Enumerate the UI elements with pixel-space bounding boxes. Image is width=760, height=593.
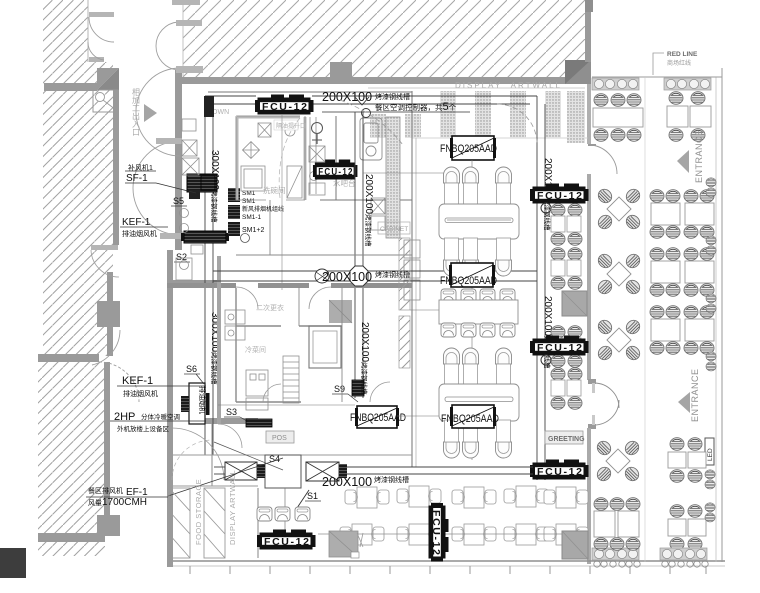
label S1 [297, 490, 321, 508]
kitchen door arc a [236, 287, 258, 309]
svg-text:排油烟风机: 排油烟风机 [123, 389, 158, 398]
duct valve circle node [315, 269, 329, 283]
svg-text:FNBQ205AAD: FNBQ205AAD [350, 412, 406, 424]
supply fan SF-1 unit [187, 174, 217, 199]
fan coil FCU-12 bottom left [257, 530, 316, 550]
fan coil FCU-12 right riser bottom [530, 460, 589, 480]
diamond table 2 [596, 252, 643, 297]
svg-text:200X100: 200X100 [322, 270, 372, 284]
S3 striped bar [246, 419, 272, 427]
right wall mid segment [587, 174, 591, 380]
svg-text:DISPLAY ARTWALL: DISPLAY ARTWALL [455, 81, 562, 90]
connection line FNBQ row horizontals [363, 172, 452, 174]
right wall lower segment [587, 428, 591, 564]
right building wall upper [585, 0, 591, 62]
dining cluster C3 table [439, 384, 519, 421]
exhaust duct black segment top [204, 96, 214, 117]
kitchen lower-left wall bar [200, 418, 258, 424]
food storage racks [169, 488, 258, 558]
svg-text:冷菜间: 冷菜间 [245, 345, 266, 354]
svg-text:SM1+2: SM1+2 [242, 227, 264, 234]
bottom bench band left [592, 548, 639, 560]
door arc right upper [591, 145, 617, 174]
kitchen mid horizontal wall [172, 280, 218, 287]
kitchen wall x270 upper [269, 200, 271, 255]
bottom grid tick marks [190, 566, 706, 574]
door swing upper-left wall b [88, 42, 104, 62]
banquette rail line bottom [318, 533, 588, 535]
booth column unit 2 [551, 248, 582, 290]
ENTRANCE arrow lower [678, 392, 690, 413]
corridor top edge [592, 76, 722, 78]
corridor table set 2 [650, 190, 714, 239]
central riser duct [355, 112, 363, 398]
kitchen door arc d [370, 382, 390, 402]
label 2HP [110, 411, 206, 433]
big duct label 200X100 top [322, 90, 470, 118]
water bar counter equipment [371, 117, 420, 300]
lower kitchen appliance row [246, 370, 268, 410]
big duct label 200X100 mid [322, 270, 410, 284]
top wall bar [175, 77, 591, 84]
corridor arrow [144, 104, 157, 122]
bottom-left dark block [0, 548, 26, 578]
dining cluster C1 benches bottom [444, 238, 512, 276]
svg-text:GREETING: GREETING [548, 436, 585, 443]
svg-text:KEF-1: KEF-1 [122, 375, 153, 387]
damper S2 label [174, 252, 190, 262]
fan coil FCU-7 water bar [313, 160, 357, 180]
svg-text:口: 口 [132, 128, 140, 137]
horizontal main duct 200X100 mid [213, 271, 537, 281]
svg-text:烤漆钢线槽: 烤漆钢线槽 [374, 475, 409, 484]
svg-text:S5: S5 [173, 196, 184, 206]
big refrigerator box [309, 326, 341, 368]
svg-text:RED LINE: RED LINE [667, 51, 698, 58]
svg-text:DISPLAY ARTWALL: DISPLAY ARTWALL [228, 470, 237, 545]
top bench band left [592, 78, 639, 90]
right riser duct pair [537, 96, 545, 480]
kitchen top inner wall [208, 91, 412, 93]
door swing arc top-left outer [133, 22, 180, 235]
artwall hatched stripes [368, 88, 585, 143]
svg-text:餐区排风机: 餐区排风机 [88, 486, 123, 495]
door jamb block mid left [97, 301, 120, 327]
svg-text:SM1-1: SM1-1 [242, 214, 262, 221]
fan coil FNBQ205AAD unit 1 [440, 136, 497, 160]
connection line FNBQ1 down through tables [471, 160, 473, 263]
svg-text:烤漆钢线槽: 烤漆钢线槽 [375, 92, 410, 101]
bottom duct 200X100 [214, 467, 533, 474]
cold room wall x342 [341, 287, 343, 402]
leader line from 200X100 top to S4 [214, 442, 283, 470]
left building wall upper [175, 70, 182, 250]
corridor label 相加工出入口 [132, 87, 140, 137]
service station gray square bottom [562, 531, 588, 559]
hood dashed arc upper kitchen 2 [279, 118, 300, 198]
bottom-left door arc small [218, 424, 242, 448]
svg-text:二次更衣: 二次更衣 [256, 303, 284, 312]
LED box [705, 438, 714, 465]
water bar tall cabinet [360, 118, 382, 160]
bottom-right booth cluster left [594, 498, 640, 551]
svg-text:外机放楼上设备区: 外机放楼上设备区 [117, 424, 170, 433]
diamond table 1 [596, 187, 643, 232]
storage zone top wall [172, 485, 258, 487]
left exterior hatched wall band upper [43, 0, 119, 356]
hood dashed arc upper kitchen [340, 100, 403, 145]
svg-text:餐区空调控制器，共5个: 餐区空调控制器，共5个 [375, 101, 457, 113]
svg-text:ENTRANCE: ENTRANCE [690, 368, 700, 422]
corridor table set 4 [650, 306, 714, 355]
fan coil vertical unit bottom center [429, 503, 449, 562]
door arc left-mid corridor [92, 330, 139, 402]
booth column unit 1 [551, 204, 582, 246]
svg-text:FOOD STORAGE: FOOD STORAGE [194, 479, 203, 545]
svg-text:CABINET: CABINET [380, 226, 408, 233]
dining cluster C1 benches top [444, 167, 512, 205]
top bench band right [664, 78, 711, 90]
bottom-left door arc big [172, 428, 224, 480]
svg-text:FNBQ205AAD: FNBQ205AAD [440, 143, 497, 155]
corridor table set 5 [668, 438, 706, 483]
door leaf blocks top-left [156, 0, 203, 239]
fan coil FNBQ205AAD unit 2 [440, 263, 497, 287]
svg-text:SF-1: SF-1 [126, 173, 148, 184]
cold room / changing room walls [236, 288, 342, 402]
dining cluster C3 benches top [444, 348, 512, 386]
label KEF-1 upper [120, 217, 168, 238]
table set top-left long [593, 94, 643, 142]
kitchen mid wall gray bar [167, 283, 412, 288]
kitchen exhaust KEF lower striped units [181, 383, 210, 424]
bottom boundary wall double line [168, 561, 725, 566]
kitchen room wall y255 [236, 254, 412, 256]
kitchen door arc b [309, 287, 331, 309]
top wall column block [330, 62, 352, 84]
FCU-12 centerline down [281, 115, 283, 290]
booth column unit 4 [551, 368, 582, 410]
exhaust unit bar (by S2) [181, 231, 229, 243]
label S3 [224, 407, 252, 424]
SM fresh-air units stack [228, 188, 284, 243]
svg-text:S3: S3 [226, 407, 237, 417]
POS counter [266, 431, 294, 443]
bottom-left wall x212 [211, 424, 213, 486]
kitchen door arc c [263, 384, 281, 402]
wall-side mini seats column [705, 178, 716, 522]
svg-text:分体冷暖空调: 分体冷暖空调 [141, 412, 180, 421]
ladder shelf [283, 356, 299, 403]
changing room wall x299 [298, 287, 300, 326]
dining cluster C3 benches bottom [444, 420, 512, 458]
diamond table 4 [595, 439, 642, 484]
left kitchen equipment column [176, 119, 203, 280]
corridor table set 6 [668, 505, 706, 551]
entrance double door arcs [588, 379, 619, 429]
svg-text:LED: LED [707, 448, 714, 461]
bottom-left door dashed arc [172, 440, 212, 480]
dining cluster C1 table [439, 204, 519, 239]
svg-text:SM1: SM1 [242, 198, 256, 205]
wall bar crossing left band top [44, 83, 97, 91]
door jamb block lower left [97, 515, 120, 536]
wall bar crossing left band middle [38, 354, 99, 362]
GREETING sign [545, 431, 585, 444]
dining cluster C2 chairs top row [441, 289, 515, 303]
corridor left edge line [644, 77, 646, 562]
label S6 [184, 364, 204, 384]
dishwashing room walls [237, 117, 305, 200]
service station gray square upper [562, 291, 587, 316]
dining cluster C2 chairs bottom row [441, 323, 515, 337]
dishwasher equipment boxes [241, 123, 325, 198]
dining cluster C2 table [439, 300, 518, 324]
fan coil FNBQ205AAD unit 3 (bottom left) [350, 406, 406, 428]
svg-text:隔油提升口: 隔油提升口 [276, 122, 306, 130]
label EF-1 with leader [86, 458, 283, 508]
svg-text:FNBQ205AAD: FNBQ205AAD [440, 275, 497, 287]
right building wall below corner [587, 84, 591, 144]
kitchen corridor wall x219 [217, 256, 221, 424]
label 补风机1 SF-1 [125, 163, 196, 193]
RED LINE label [653, 51, 698, 75]
tiny stool circles row bottom-right [594, 561, 708, 567]
svg-text:S9: S9 [334, 384, 345, 394]
VAV S9 unit [352, 380, 364, 396]
damper S5 label [171, 196, 187, 206]
exhaust riser duct 300X100 [205, 96, 537, 455]
ENTRANCE arrow upper [677, 150, 689, 173]
svg-text:FNBQ205AAD: FNBQ205AAD [441, 413, 499, 425]
sink pair cold room [225, 310, 245, 340]
bottom bench band right [660, 548, 707, 560]
left exterior hatched wall band lower [38, 362, 110, 556]
small dining tables row A [257, 486, 588, 521]
lease boundary line right [715, 77, 717, 562]
svg-text:S4: S4 [269, 454, 280, 464]
fan coil FCU-12 right riser middle [530, 336, 589, 366]
svg-text:排油烟风机: 排油烟风机 [122, 229, 157, 238]
svg-text:KEF-1: KEF-1 [122, 217, 151, 228]
label S9 [332, 384, 358, 402]
svg-text:POS: POS [272, 435, 287, 442]
label KEF-1 lower [117, 375, 206, 398]
door swing in left edge wall (y 248) [91, 245, 119, 277]
svg-text:排油烟机: 排油烟机 [198, 386, 207, 414]
left building wall lower [167, 250, 173, 567]
kitchen right wall (dining divider) [411, 91, 413, 467]
svg-text:新风排烟机组线: 新风排烟机组线 [242, 205, 284, 213]
big duct label 200X100 bottom [322, 475, 409, 489]
svg-text:商场红线: 商场红线 [667, 59, 691, 67]
water bar room walls [320, 116, 412, 200]
service gray square bottom-center [329, 531, 363, 558]
door swing upper-left wall a [89, 12, 114, 42]
gray diagonal square (hood) [329, 300, 352, 323]
S4 drop line to FCU [284, 488, 286, 532]
booth column unit 3 [551, 326, 582, 368]
fan coil FCU-12 kitchen top [255, 95, 314, 115]
corridor table set 3 [650, 248, 714, 297]
fan coil FCU-12 right riser top [530, 184, 589, 214]
label 隔油提升口 [274, 120, 306, 130]
wall bar crossing left band bottom [38, 533, 105, 542]
kitchen bottom boundary wall [173, 454, 412, 456]
top-right corner wall block with triangle [565, 60, 591, 84]
svg-text:S1: S1 [307, 491, 318, 501]
svg-text:S6: S6 [186, 364, 197, 374]
diamond table 3 [596, 318, 643, 363]
fan coil FNBQ205AAD unit 4 (bottom right) [441, 405, 499, 428]
svg-text:ENTRANCE: ENTRANCE [694, 129, 704, 183]
top exterior hatched band [183, 0, 590, 77]
table set top-right two tables [667, 92, 711, 142]
duct junction octagon [350, 266, 368, 286]
S4 damper unit assembly [225, 454, 347, 488]
cabinet strip wall [378, 222, 410, 368]
small dining tables row B [340, 524, 588, 545]
corner bowtie block upper left [93, 68, 119, 112]
